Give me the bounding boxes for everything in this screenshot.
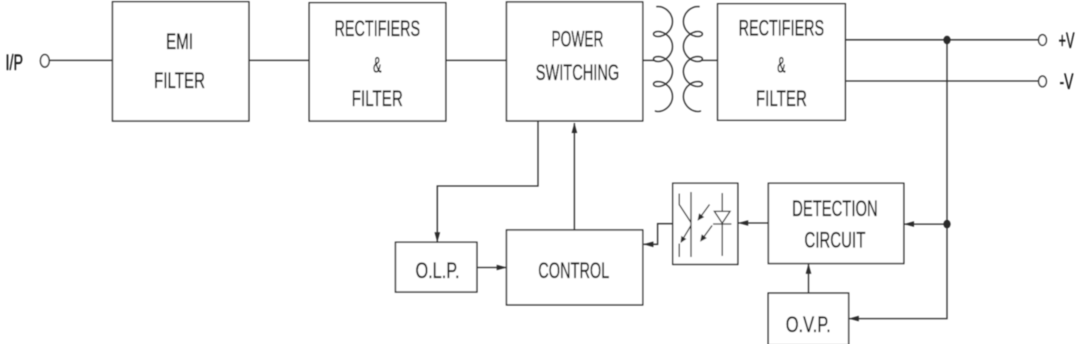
wire OLP to control	[477, 267, 507, 269]
svg-text:FILTER: FILTER	[154, 68, 205, 93]
input terminal	[40, 55, 49, 67]
phototransistor emitter lead	[678, 244, 680, 258]
wire control to power switching	[573, 123, 575, 230]
svg-text:POWER: POWER	[552, 27, 604, 52]
LED cathode lead	[721, 224, 723, 256]
svg-text:FILTER: FILTER	[352, 86, 403, 111]
photon arrow lower	[704, 226, 712, 237]
block CONTROL	[507, 230, 643, 305]
block O.L.P.	[396, 242, 477, 292]
phototransistor emitter with arrow	[684, 226, 691, 238]
svg-text:EMI: EMI	[166, 29, 193, 54]
block O.V.P.	[768, 293, 848, 344]
svg-text:RECTIFIERS: RECTIFIERS	[335, 16, 421, 41]
wire power switching to transformer	[643, 59, 655, 61]
wire +V rail down to detection junction	[946, 40, 948, 224]
LED triangle	[714, 211, 730, 223]
svg-text:CONTROL: CONTROL	[538, 258, 609, 283]
arrowhead into CONTROL right	[643, 242, 653, 248]
svg-text:RECTIFIERS: RECTIFIERS	[739, 15, 825, 40]
svg-text:-V: -V	[1060, 69, 1074, 94]
wire detection to photocoupler	[738, 222, 768, 224]
wire junction down to OVP feed	[849, 224, 947, 319]
wire power switching to OLP	[437, 121, 538, 242]
phototransistor collector lead	[679, 194, 691, 223]
transformer T1 primary winding	[654, 7, 673, 112]
wire input to EMI FILTER	[49, 59, 113, 61]
wire transformer to output rectifiers	[701, 59, 718, 61]
block photocoupler U1	[673, 183, 738, 264]
junction dot detection	[943, 220, 950, 228]
arrowhead into POWER SWITCHING bottom	[572, 123, 578, 133]
arrowhead into DETECTION right	[904, 221, 914, 227]
svg-text:DETECTION: DETECTION	[792, 196, 878, 221]
transformer T1 secondary winding	[683, 7, 702, 112]
wire photocoupler to control	[644, 224, 673, 245]
wire EMI to rectifiers	[249, 59, 309, 61]
wire OVP to detection circuit	[808, 264, 810, 293]
arrowhead into O.L.P. top	[435, 232, 441, 242]
block EMI FILTER	[113, 2, 249, 121]
svg-text:O.V.P.: O.V.P.	[786, 312, 831, 337]
arrowhead into O.V.P. right	[849, 316, 859, 322]
wire +V output	[845, 39, 1038, 41]
svg-text:I/P: I/P	[6, 50, 24, 75]
arrowhead into photocoupler right	[738, 220, 748, 226]
LED anode lead	[721, 193, 723, 211]
wire junction to detection circuit	[904, 223, 947, 225]
block POWER SWITCHING	[507, 2, 643, 121]
block RECTIFIERS & FILTER output	[718, 4, 846, 120]
arrowhead into CONTROL left	[497, 265, 507, 271]
terminal +V	[1039, 35, 1047, 46]
photon arrow upper	[702, 205, 710, 216]
phototransistor base bar	[690, 192, 692, 257]
junction dot +V rail	[943, 36, 950, 44]
block DETECTION CIRCUIT	[768, 183, 903, 263]
svg-text:O.L.P.: O.L.P.	[416, 258, 460, 283]
svg-text:SWITCHING: SWITCHING	[536, 60, 620, 85]
svg-text:+V: +V	[1059, 28, 1075, 53]
wire -V output	[845, 80, 1038, 82]
svg-text:&: &	[777, 52, 786, 77]
svg-text:FILTER: FILTER	[756, 86, 807, 111]
terminal -V	[1039, 76, 1047, 87]
arrowhead into DETECTION bottom	[806, 264, 812, 274]
LED cathode bar	[713, 223, 731, 225]
svg-text:CIRCUIT: CIRCUIT	[804, 227, 865, 252]
wire rectifiers to power switching	[446, 59, 507, 61]
svg-text:&: &	[373, 53, 382, 78]
block RECTIFIERS & FILTER input	[309, 3, 446, 121]
